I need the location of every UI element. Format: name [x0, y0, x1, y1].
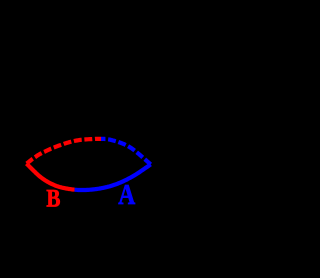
- svg-text:A: A: [118, 179, 135, 210]
- svg-text:B: B: [46, 184, 60, 212]
